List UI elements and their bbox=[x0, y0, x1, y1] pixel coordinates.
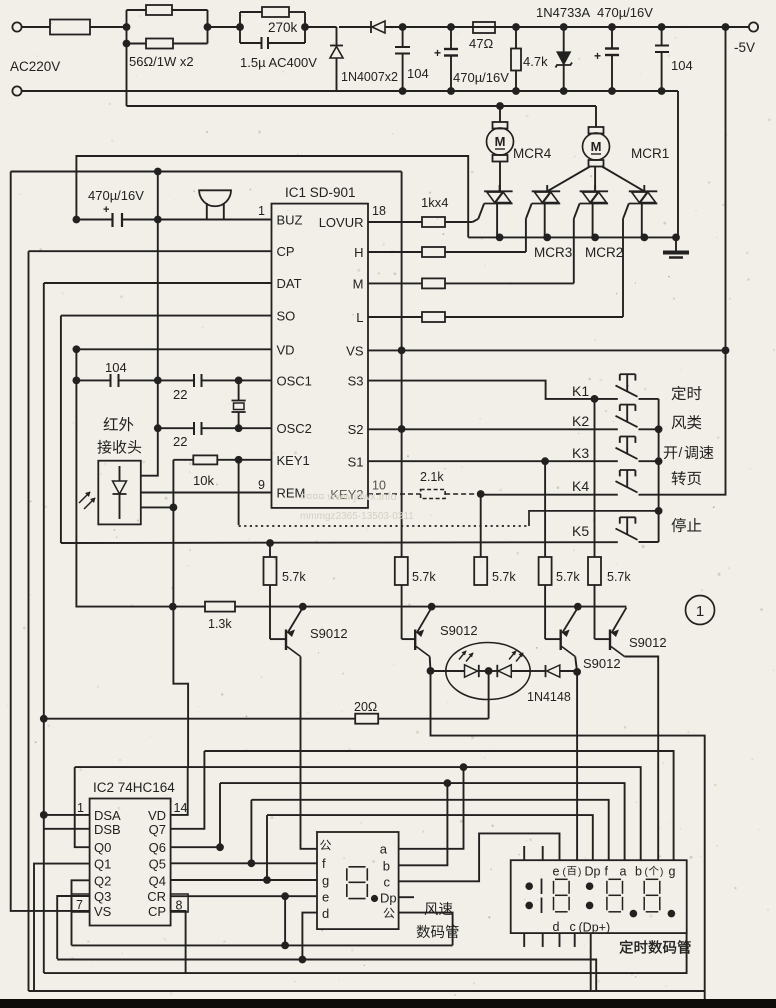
svg-text:(Dp+): (Dp+) bbox=[579, 921, 611, 935]
svg-text:c: c bbox=[570, 920, 576, 934]
node 56ohm right bbox=[207, 10, 209, 44]
node 56ohm left bbox=[126, 10, 128, 106]
svg-text:9: 9 bbox=[258, 478, 265, 492]
IR arrows bbox=[79, 492, 90, 503]
display timer interior dots bbox=[525, 882, 533, 890]
capacitor 104 OSC1 bbox=[73, 377, 81, 385]
IC IC2 74HC164 box bbox=[90, 799, 171, 926]
svg-text:Q3: Q3 bbox=[94, 889, 111, 904]
svg-text:7: 7 bbox=[76, 898, 83, 912]
display timer colon bbox=[586, 882, 594, 890]
svg-text:d: d bbox=[553, 920, 560, 934]
capacitor 470u/16V second electrolytic bbox=[611, 27, 613, 49]
display timer lower stubs bbox=[559, 933, 561, 947]
wire KEY1 down bbox=[173, 460, 188, 767]
LED arrows 2 bbox=[509, 651, 516, 660]
resistor 5.7k no3 bbox=[480, 494, 482, 557]
label zhuanye bbox=[672, 471, 686, 485]
label dingshi bbox=[672, 386, 686, 400]
wire Q7 step bbox=[171, 751, 205, 829]
wire SO bbox=[61, 315, 272, 317]
svg-text:1: 1 bbox=[696, 603, 704, 620]
display timer digit A bbox=[555, 878, 568, 880]
wire BUZ bbox=[158, 219, 272, 221]
svg-text:-5V: -5V bbox=[734, 40, 755, 55]
wire Q3 left bbox=[57, 896, 89, 959]
bottom black band bbox=[0, 999, 776, 1008]
svg-text:S9012: S9012 bbox=[583, 656, 621, 671]
svg-text:K3: K3 bbox=[572, 445, 589, 461]
bus H2 to b bbox=[75, 767, 641, 860]
svg-text:104: 104 bbox=[407, 66, 429, 81]
wire OSC2 to IC bbox=[239, 427, 272, 429]
svg-text:c: c bbox=[384, 875, 391, 890]
diode D1 1N4007 vertical bbox=[336, 27, 338, 45]
svg-text:CR: CR bbox=[147, 889, 166, 904]
svg-text:CP: CP bbox=[148, 904, 166, 919]
svg-text:S9012: S9012 bbox=[440, 623, 478, 638]
wire CP bbox=[29, 250, 272, 252]
resistor 1k LOVUR bbox=[368, 221, 422, 223]
wire bus CP left bbox=[28, 251, 30, 991]
svg-text:K1: K1 bbox=[572, 383, 589, 399]
svg-text:K4: K4 bbox=[572, 478, 589, 494]
svg-text:Q0: Q0 bbox=[94, 840, 111, 855]
switch K2 bbox=[616, 416, 638, 427]
wire Q2 collector to right frame bbox=[431, 671, 705, 1001]
svg-text:5.7k: 5.7k bbox=[607, 570, 631, 584]
capacitor 22 OSC2 bbox=[154, 424, 162, 432]
svg-text:1N4007x2: 1N4007x2 bbox=[341, 70, 398, 84]
node 4.7k bbox=[512, 23, 520, 31]
svg-text:Dp: Dp bbox=[380, 891, 397, 906]
display timer box bbox=[511, 860, 687, 933]
svg-text:M: M bbox=[591, 139, 602, 154]
resistor 5.7k no2 bbox=[395, 557, 408, 585]
ground bbox=[675, 237, 677, 251]
svg-text:5.7k: 5.7k bbox=[556, 570, 580, 584]
wire S1 down to 5.7k bbox=[544, 461, 546, 557]
wire Q1 collector to display common bbox=[301, 657, 318, 849]
op IC1 SD-901 box bbox=[272, 204, 369, 508]
buzzer bbox=[199, 190, 231, 206]
wire display d bbox=[302, 913, 317, 959]
wire REM bbox=[141, 492, 272, 494]
fuse F1 bbox=[50, 20, 90, 35]
wire Q0 loop bbox=[75, 767, 90, 847]
svg-text:S3: S3 bbox=[348, 374, 364, 389]
IR photodiode bbox=[119, 466, 121, 481]
wire S3 to K1 bbox=[368, 381, 618, 399]
wire CP right down bbox=[171, 911, 186, 973]
switch K4 bbox=[616, 481, 638, 492]
circled number 1 bbox=[686, 596, 715, 625]
svg-text:1: 1 bbox=[258, 204, 265, 218]
bus B3 bbox=[44, 933, 687, 973]
wire DSA bbox=[44, 814, 90, 816]
wire Q1 left bbox=[34, 864, 90, 991]
svg-text:e: e bbox=[553, 865, 560, 879]
LED pair ellipse bbox=[446, 643, 530, 700]
wire bus outer left bbox=[11, 172, 90, 911]
svg-text:b: b bbox=[635, 865, 642, 879]
wire S2 vertical net bbox=[401, 172, 403, 558]
resistor 20ohm bbox=[40, 715, 48, 723]
wire Q4 collector to timer display bbox=[625, 657, 659, 861]
bus H4 to f bbox=[251, 800, 608, 860]
svg-text:1N4148: 1N4148 bbox=[527, 690, 571, 704]
label fengsu bbox=[425, 903, 438, 916]
svg-text:S2: S2 bbox=[348, 422, 364, 437]
capacitor 1.5u AC400V bbox=[240, 42, 262, 44]
resistor 56ohm lower bbox=[127, 43, 147, 45]
svg-text:K5: K5 bbox=[572, 523, 589, 539]
wire REM net dashed to K5 bbox=[238, 460, 240, 525]
wire bus DAT left bbox=[43, 283, 45, 973]
wire Q2 left bbox=[72, 880, 90, 945]
svg-text:+: + bbox=[594, 49, 601, 63]
bus B2 bbox=[57, 960, 596, 992]
svg-text:1kx4: 1kx4 bbox=[421, 195, 448, 210]
IR receiver box bbox=[98, 461, 141, 525]
svg-text:S9012: S9012 bbox=[629, 635, 667, 650]
label tingzhi bbox=[671, 518, 685, 532]
wires MCR1 to triacs bbox=[547, 167, 590, 192]
wire frame y156 bbox=[76, 156, 468, 237]
svg-text:LOVUR: LOVUR bbox=[319, 215, 364, 230]
wire rail to triac common bbox=[677, 91, 679, 237]
wire top rail bbox=[339, 26, 371, 28]
svg-text:Q4: Q4 bbox=[149, 873, 166, 888]
resistor 5.7k no5 bbox=[594, 399, 596, 557]
transistor Q1 S9012 bbox=[269, 585, 271, 639]
label kai/tiaosu bbox=[664, 446, 677, 459]
wire to 270k net bbox=[208, 26, 241, 28]
svg-text:14: 14 bbox=[174, 801, 188, 815]
wire Q2 collector down bbox=[429, 657, 432, 671]
svg-text:Dp: Dp bbox=[585, 865, 601, 879]
svg-text:Q1: Q1 bbox=[94, 857, 111, 872]
svg-text:S9012: S9012 bbox=[310, 626, 348, 641]
svg-text:f: f bbox=[322, 856, 326, 871]
node ecap1 bbox=[447, 23, 455, 31]
wire Q5 to display f bbox=[171, 862, 317, 864]
resistor 1k L bbox=[368, 316, 422, 318]
svg-text:KEY1: KEY1 bbox=[277, 453, 310, 468]
svg-text:): ) bbox=[660, 867, 663, 878]
svg-text:4.7k: 4.7k bbox=[523, 54, 548, 69]
svg-text:Q6: Q6 bbox=[149, 840, 166, 855]
svg-text:2.1k: 2.1k bbox=[420, 470, 444, 484]
svg-text:VD: VD bbox=[148, 808, 166, 823]
svg-text:104: 104 bbox=[105, 360, 127, 375]
svg-text:MCR4: MCR4 bbox=[513, 146, 552, 161]
svg-text:1.3k: 1.3k bbox=[208, 617, 232, 631]
wire VS to -5V line bbox=[368, 349, 726, 351]
svg-text:MCR3: MCR3 bbox=[534, 245, 572, 260]
capacitor 470u/16V first electrolytic bbox=[450, 27, 452, 49]
wire LED center down bbox=[488, 671, 490, 719]
svg-text:g: g bbox=[322, 873, 329, 888]
transistor Q3 S9012 bbox=[544, 585, 546, 639]
terminal AC L bbox=[12, 22, 21, 31]
svg-text:DAT: DAT bbox=[277, 276, 302, 291]
svg-text:20Ω: 20Ω bbox=[354, 700, 377, 714]
display timer stubs bbox=[523, 846, 525, 860]
svg-text:a: a bbox=[620, 865, 627, 879]
terminal -5V bbox=[749, 22, 758, 31]
wire frame y171.5 bbox=[11, 171, 402, 173]
svg-text:K2: K2 bbox=[572, 413, 589, 429]
node zener bbox=[560, 23, 568, 31]
svg-text:VS: VS bbox=[94, 904, 112, 919]
resistor 1k H bbox=[368, 251, 422, 253]
motor MCR4 bbox=[499, 106, 501, 122]
svg-text:5.7k: 5.7k bbox=[282, 570, 306, 584]
capacitor 22 OSC1 bbox=[154, 377, 162, 385]
terminal AC N bbox=[12, 86, 21, 95]
wire K4 right bbox=[639, 494, 656, 496]
wire S1 to K3 bbox=[368, 460, 618, 462]
resistor 4.7k bbox=[515, 27, 517, 49]
svg-text:OSC2: OSC2 bbox=[277, 421, 312, 436]
wire -5V vertical bbox=[655, 27, 726, 495]
wire fuse to node bbox=[90, 26, 127, 28]
display timer dp dots bbox=[630, 910, 638, 918]
svg-text:104: 104 bbox=[671, 58, 693, 73]
wire base rail y543 to K5 bbox=[61, 541, 618, 544]
display fengsu 7seg digit bbox=[349, 866, 366, 868]
svg-text:OSC1: OSC1 bbox=[277, 373, 312, 388]
transistor Q4 S9012 bbox=[594, 585, 596, 639]
wire VD bbox=[76, 348, 271, 350]
svg-text:+: + bbox=[434, 46, 441, 60]
svg-text:BUZ: BUZ bbox=[277, 213, 303, 228]
wire CR to display e bbox=[171, 895, 317, 897]
bus B1 bbox=[72, 944, 453, 946]
zener diode 1N4733A bbox=[563, 27, 565, 52]
wire DAT bbox=[44, 282, 272, 284]
display fengsu box bbox=[317, 832, 399, 929]
bus H5 to Dp bbox=[267, 815, 593, 860]
svg-text:g: g bbox=[669, 865, 676, 879]
svg-text:S1: S1 bbox=[348, 454, 364, 469]
wire to LED1 bbox=[431, 670, 465, 672]
capacitor 470u/16V at BUZ bbox=[73, 216, 81, 224]
diode D2 1N4007 horizontal bbox=[370, 21, 372, 33]
switch K1 bbox=[616, 385, 638, 396]
triac MCR2 bbox=[580, 190, 609, 192]
svg-text:SO: SO bbox=[277, 309, 296, 324]
bus H1 to g bbox=[204, 751, 673, 860]
svg-text:M: M bbox=[495, 134, 506, 149]
triac MCR3 bbox=[532, 190, 561, 192]
svg-text:1: 1 bbox=[77, 801, 84, 815]
wire OSC1 to IC bbox=[239, 379, 272, 381]
svg-text:47Ω: 47Ω bbox=[469, 36, 493, 51]
triac MCR1 bbox=[629, 190, 658, 192]
svg-text:d: d bbox=[322, 906, 329, 921]
svg-text:M: M bbox=[353, 276, 364, 291]
svg-text:22: 22 bbox=[173, 434, 187, 449]
svg-text:IC2 74HC164: IC2 74HC164 bbox=[93, 780, 175, 795]
node cap104b bbox=[658, 23, 666, 31]
wire Q6 step bbox=[171, 783, 220, 847]
crystal bbox=[238, 380, 240, 400]
svg-text:5.7k: 5.7k bbox=[412, 570, 436, 584]
triac common rail bbox=[468, 236, 676, 238]
wire display a up to bus bbox=[399, 767, 464, 849]
svg-text:Q2: Q2 bbox=[94, 873, 111, 888]
svg-text:): ) bbox=[578, 867, 581, 878]
LED1 bbox=[465, 665, 478, 677]
node 270k right bbox=[304, 12, 306, 43]
display fengsu labels left bbox=[320, 840, 331, 851]
bus B4 bbox=[29, 990, 705, 992]
svg-text:/: / bbox=[679, 445, 683, 460]
node 270k left bbox=[239, 12, 241, 43]
transistor Q2 S9012 bbox=[401, 585, 403, 639]
resistor 270k bbox=[240, 11, 262, 13]
display timer digit B bbox=[608, 878, 621, 880]
wire IR top to OSC bus bbox=[141, 172, 158, 476]
display timer digit C bbox=[646, 878, 659, 880]
svg-text:MCR2: MCR2 bbox=[585, 245, 623, 260]
svg-text:H: H bbox=[354, 245, 363, 260]
motor MCR1 bbox=[595, 106, 597, 127]
wire display c over to timer e bbox=[399, 833, 560, 881]
switch common vertical bbox=[639, 398, 659, 400]
resistor 5.7k no1 bbox=[269, 543, 271, 557]
bus H3 to a bbox=[220, 783, 625, 860]
LED arrows 1 bbox=[459, 651, 466, 660]
display timer digit one bbox=[541, 879, 543, 895]
svg-text:mmmgz2365·13503·0311: mmmgz2365·13503·0311 bbox=[300, 511, 414, 522]
svg-text:VS: VS bbox=[346, 343, 364, 358]
wire motor feed bbox=[127, 105, 597, 107]
svg-text:1N4733A: 1N4733A bbox=[536, 5, 591, 20]
wire to diode D1 bbox=[305, 26, 337, 28]
wire bus VD-OSC1 bbox=[75, 349, 77, 543]
node -5V branch bbox=[722, 23, 730, 31]
svg-text:¤¤¤¤ www.jdwx.info: ¤¤¤¤ www.jdwx.info bbox=[300, 491, 397, 503]
svg-text:VD: VD bbox=[277, 342, 295, 357]
svg-text:1.5µ AC400V: 1.5µ AC400V bbox=[240, 55, 317, 70]
svg-text:56Ω/1W x2: 56Ω/1W x2 bbox=[129, 54, 194, 69]
svg-text:f: f bbox=[605, 865, 609, 879]
label fenglei bbox=[672, 416, 686, 430]
capacitor 104 first bbox=[402, 27, 404, 47]
node cap104a bbox=[399, 23, 407, 31]
svg-text:IC1 SD-901: IC1 SD-901 bbox=[285, 185, 356, 200]
svg-text:18: 18 bbox=[372, 204, 386, 218]
svg-text:b: b bbox=[383, 859, 390, 874]
svg-text:Q5: Q5 bbox=[149, 857, 166, 872]
svg-text:5.7k: 5.7k bbox=[492, 570, 516, 584]
resistor 1.3k + emitter rail bbox=[60, 316, 62, 543]
svg-text:DSB: DSB bbox=[94, 822, 121, 837]
wire timer Dp+ column down bbox=[590, 933, 592, 991]
svg-text:MCR1: MCR1 bbox=[631, 146, 669, 161]
resistor 10k KEY1 bbox=[217, 459, 271, 461]
node ecap2 bbox=[608, 23, 616, 31]
svg-text:270k: 270k bbox=[268, 20, 298, 35]
svg-text:470µ/16V: 470µ/16V bbox=[88, 188, 144, 203]
wire KEY2 dashed with 2.1k bbox=[368, 493, 421, 495]
resistor 5.7k no4 bbox=[539, 557, 552, 585]
switch K5 bbox=[616, 529, 638, 540]
svg-text:e: e bbox=[322, 890, 329, 905]
svg-text:Q7: Q7 bbox=[149, 822, 166, 837]
wire VD step bbox=[171, 767, 188, 815]
resistor 56ohm upper bbox=[127, 9, 147, 11]
node LED center bbox=[485, 667, 493, 675]
svg-text:470µ/16V: 470µ/16V bbox=[597, 5, 653, 20]
wire S2 to K2 bbox=[368, 428, 618, 430]
label timer display bbox=[620, 940, 633, 953]
svg-text:+: + bbox=[103, 204, 109, 216]
IR receiver labels bbox=[104, 417, 118, 430]
svg-text:22: 22 bbox=[173, 387, 187, 402]
svg-text:DSA: DSA bbox=[94, 808, 121, 823]
wire Q3 collector to timer display bbox=[575, 657, 577, 672]
resistor 1k M bbox=[368, 282, 422, 284]
wire IR bottom bbox=[141, 506, 174, 508]
LED2 bbox=[484, 670, 499, 672]
resistor 47ohm bbox=[473, 22, 495, 33]
capacitor 104 second bbox=[661, 27, 663, 46]
wire display b up to bus bbox=[399, 783, 448, 865]
svg-text:CP: CP bbox=[277, 244, 295, 259]
svg-text:470µ/16V: 470µ/16V bbox=[453, 70, 509, 85]
diode 1N4148 bbox=[530, 670, 546, 672]
svg-text:L: L bbox=[356, 310, 363, 325]
triac for MCR4 bbox=[484, 190, 512, 192]
wire display Dp stub bbox=[399, 896, 414, 898]
wire K5 right bbox=[639, 541, 659, 543]
wire bottom AC rail bbox=[22, 90, 678, 92]
wire Q4 to display g bbox=[171, 879, 317, 881]
svg-text:a: a bbox=[380, 842, 388, 857]
svg-text:10k: 10k bbox=[193, 473, 214, 488]
wire display common stub bbox=[399, 913, 453, 946]
switch K3 bbox=[616, 448, 638, 459]
wire AC L to fuse bbox=[22, 26, 50, 28]
svg-text:AC220V: AC220V bbox=[10, 59, 60, 74]
